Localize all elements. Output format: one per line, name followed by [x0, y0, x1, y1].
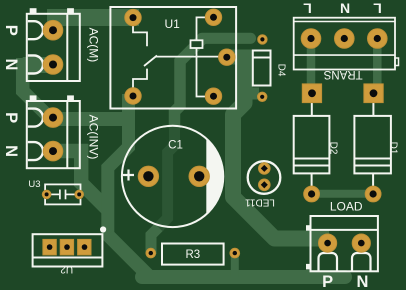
svg-text:P: P — [2, 112, 20, 123]
svg-text:N: N — [340, 1, 350, 17]
svg-text:D2: D2 — [328, 142, 339, 155]
svg-text:N: N — [2, 145, 20, 157]
svg-text:P: P — [2, 25, 20, 36]
svg-text:U2: U2 — [60, 264, 73, 275]
svg-text:D4: D4 — [276, 64, 287, 77]
svg-text:U3: U3 — [28, 179, 40, 190]
svg-text:P: P — [322, 273, 333, 290]
svg-text:L: L — [373, 1, 382, 17]
svg-text:D1: D1 — [388, 142, 399, 155]
svg-text:TRANS: TRANS — [323, 68, 362, 80]
svg-text:AC(INV): AC(INV) — [87, 115, 101, 160]
svg-text:N: N — [2, 59, 20, 71]
svg-text:R3: R3 — [185, 249, 200, 261]
svg-text:LED11: LED11 — [245, 197, 275, 208]
svg-text:N: N — [356, 273, 368, 290]
svg-text:L: L — [303, 1, 312, 17]
svg-text:AC(M): AC(M) — [87, 28, 101, 63]
svg-text:LOAD: LOAD — [330, 199, 363, 213]
svg-text:U1: U1 — [165, 17, 181, 31]
svg-text:C1: C1 — [168, 139, 183, 151]
